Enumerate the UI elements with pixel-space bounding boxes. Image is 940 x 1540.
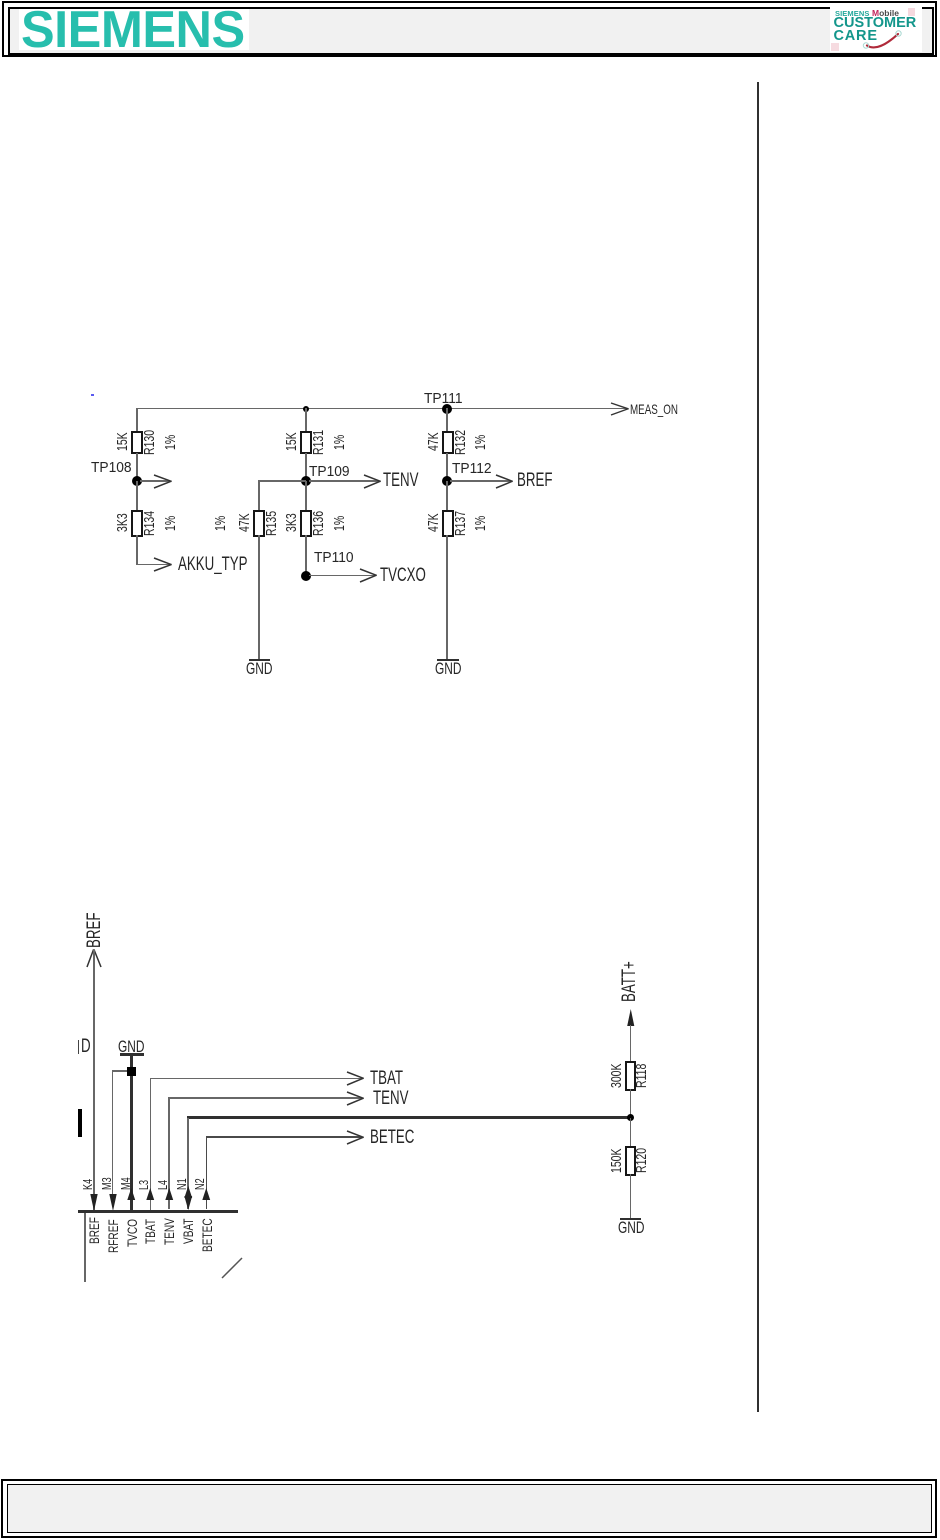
pin BETEC arrow xyxy=(346,1130,365,1145)
pin N2 arrow xyxy=(202,1188,211,1200)
wire TVCXO xyxy=(309,575,375,577)
label BREF vertical xyxy=(85,913,104,948)
wire TP109 to R136 xyxy=(305,481,307,510)
resistor R130 xyxy=(131,431,143,455)
pin BREF up arrow xyxy=(86,948,102,968)
wire branch3 upper xyxy=(446,408,448,431)
pin TP108 arrow xyxy=(153,474,173,489)
label N1 xyxy=(175,1178,188,1190)
wire R137 to GND xyxy=(446,535,448,659)
wire TBAT / pin L3 xyxy=(150,1078,363,1080)
label L4 xyxy=(156,1180,169,1190)
resistor R118 xyxy=(625,1061,636,1091)
wire VBAT / pin N1 xyxy=(187,1116,631,1118)
wire TP112 to R137 xyxy=(446,481,448,510)
node TP108 xyxy=(132,476,142,486)
wire TP108 to R134 xyxy=(136,481,138,510)
wire R118 to node xyxy=(630,1089,631,1118)
resistor R137 xyxy=(442,510,454,537)
label M3 xyxy=(100,1177,113,1190)
wire BATT+ to R118 xyxy=(630,1025,631,1061)
wire R132 to TP112 xyxy=(446,453,448,481)
FOOTER xyxy=(1,1479,937,1538)
label AKKU_TYP xyxy=(178,555,247,574)
stray plot mark xyxy=(91,394,94,397)
label BATT+ xyxy=(620,961,639,1002)
pin BREF arrow xyxy=(495,474,514,489)
node top junction xyxy=(303,406,309,412)
resistor R134 xyxy=(131,510,143,537)
label TP112 xyxy=(452,462,492,477)
text D clipped xyxy=(78,1040,80,1054)
wire BREF / pin K4 xyxy=(93,950,94,1210)
pin M4 arrow xyxy=(127,1188,136,1200)
wire R130 to TP108 xyxy=(136,453,138,481)
label TP111 xyxy=(424,392,463,407)
label TVCXO xyxy=(380,566,426,585)
wire junction to pin M3 xyxy=(112,1070,127,1071)
ground GND3 xyxy=(118,1038,144,1055)
wire GND to pin M4 xyxy=(130,1056,133,1211)
wire branch2 upper xyxy=(305,408,307,431)
pin TENV arrow xyxy=(346,1091,365,1106)
pin net labels xyxy=(87,1217,101,1244)
pin MEAS_ON arrow xyxy=(610,402,630,416)
label M4 xyxy=(119,1177,132,1190)
pin TENV arrow xyxy=(363,474,382,489)
ground GND1 xyxy=(249,659,271,661)
wire R120 to GND xyxy=(630,1174,631,1218)
wire R134 to AKKU_TYP xyxy=(136,535,138,565)
wire R135 to GND xyxy=(258,535,260,659)
wire TENV xyxy=(309,480,379,482)
node TP112 xyxy=(442,476,452,486)
resistor R120 xyxy=(625,1146,636,1176)
pin BATT+ arrow xyxy=(627,1009,635,1026)
resistor R136 xyxy=(300,510,312,537)
ground GND2 xyxy=(437,659,459,661)
label TBAT xyxy=(370,1069,403,1088)
label TP109 xyxy=(309,465,350,480)
clipped component bar xyxy=(78,1109,82,1137)
pin L4 arrow xyxy=(165,1188,174,1200)
node VBAT divider xyxy=(627,1114,634,1121)
pin L3 arrow xyxy=(146,1188,155,1200)
right margin rule xyxy=(757,82,759,1412)
wire R135 link xyxy=(258,480,306,482)
resistor R135 xyxy=(253,510,265,537)
pin M3 arrow xyxy=(109,1194,117,1211)
label BREF xyxy=(517,471,552,490)
node TP109 xyxy=(301,476,311,486)
pin TVCXO arrow xyxy=(359,568,378,583)
wire MEAS_ON bus xyxy=(136,408,628,410)
label MEAS_ON xyxy=(630,402,678,416)
pin K4 arrow xyxy=(90,1194,98,1211)
wire branch1 upper xyxy=(136,408,138,431)
label K4 xyxy=(81,1179,94,1190)
pin AKKU_TYP arrow xyxy=(153,557,173,572)
label BETEC xyxy=(370,1128,414,1147)
wire TP108 stub xyxy=(140,480,170,482)
wire R131 to TP109 xyxy=(305,453,307,481)
IC edge xyxy=(78,1210,238,1213)
label TP108 xyxy=(91,461,132,476)
wire node to R120 xyxy=(630,1118,631,1147)
node junction square xyxy=(127,1067,136,1076)
ground GND4 xyxy=(620,1218,642,1220)
resistor R132 xyxy=(442,431,454,455)
wire TENV / pin L4 xyxy=(168,1097,362,1099)
label TENV xyxy=(383,471,418,490)
IC corner slash xyxy=(220,1256,244,1280)
label L3 xyxy=(137,1180,150,1190)
pin TBAT arrow xyxy=(346,1071,365,1086)
HEADER xyxy=(2,1,937,57)
IC left edge xyxy=(84,1213,86,1282)
node TP110 xyxy=(301,571,311,581)
pin N1 arrows xyxy=(184,1186,193,1198)
label N2 xyxy=(193,1178,206,1190)
label TP110 xyxy=(314,551,354,566)
node TP111 xyxy=(442,404,452,414)
resistor R131 xyxy=(300,431,312,455)
wire BREF xyxy=(450,480,511,482)
wire BETEC / pin N2 xyxy=(206,1136,363,1138)
wire R136 to TP110 xyxy=(305,535,307,576)
label TENV bottom xyxy=(373,1089,408,1108)
